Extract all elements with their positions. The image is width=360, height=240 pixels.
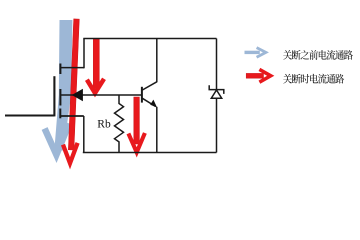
mosfet Q1 source stub: [60, 115, 84, 117]
transistor Q2 emitter arrowhead: [150, 100, 157, 108]
wire: zener top drop: [216, 39, 218, 90]
legend arrow blue (before turn-off): [245, 48, 266, 58]
zener D1 triangle: [211, 90, 221, 98]
mosfet Q1 gate bar: [53, 76, 55, 116]
wire: Q2 emitter drop: [156, 107, 158, 153]
wire: Q2 collector riser: [156, 39, 158, 83]
legend arrow red (at turn-off): [246, 69, 271, 82]
red arrow A3 (turn-off current into clamp node: shaft + V head): [93, 39, 99, 88]
transistor Q2 base bar: [141, 87, 143, 103]
legend text: 关断时电流通路: [283, 74, 344, 84]
mosfet Q1 body arrow: [72, 89, 83, 102]
red arrow A2 (turn-off current through MOSFET: shaft + V head): [68, 19, 79, 150]
transistor Q2 collector diagonal: [142, 82, 156, 90]
red arrow A4 (turn-off current through Rb: shaft + V head): [134, 97, 140, 144]
wire: drain riser: [83, 39, 85, 69]
resistor R1 (Rb): [115, 95, 124, 153]
wire: gate lead from left edge: [5, 115, 54, 117]
blue arrow A1 (current path before turn-off, through MOSFET channel): [45, 20, 73, 155]
wire: zener bottom drop: [216, 98, 218, 152]
wire: top rail: [83, 38, 216, 40]
zener D1 bar with hooks: [209, 85, 224, 94]
wire: bottom rail: [83, 152, 217, 154]
transistor Q2 emitter diagonal: [142, 98, 155, 106]
wire: source drop: [83, 116, 85, 153]
wire: clamp node (gate to Rb and Q2 base): [60, 94, 141, 96]
svg-text:Rb: Rb: [97, 118, 111, 130]
mosfet Q1 drain stub: [60, 67, 84, 69]
legend text: 关断之前电流通路: [283, 50, 353, 60]
mosfet Q1 channel segments: [59, 64, 61, 75]
